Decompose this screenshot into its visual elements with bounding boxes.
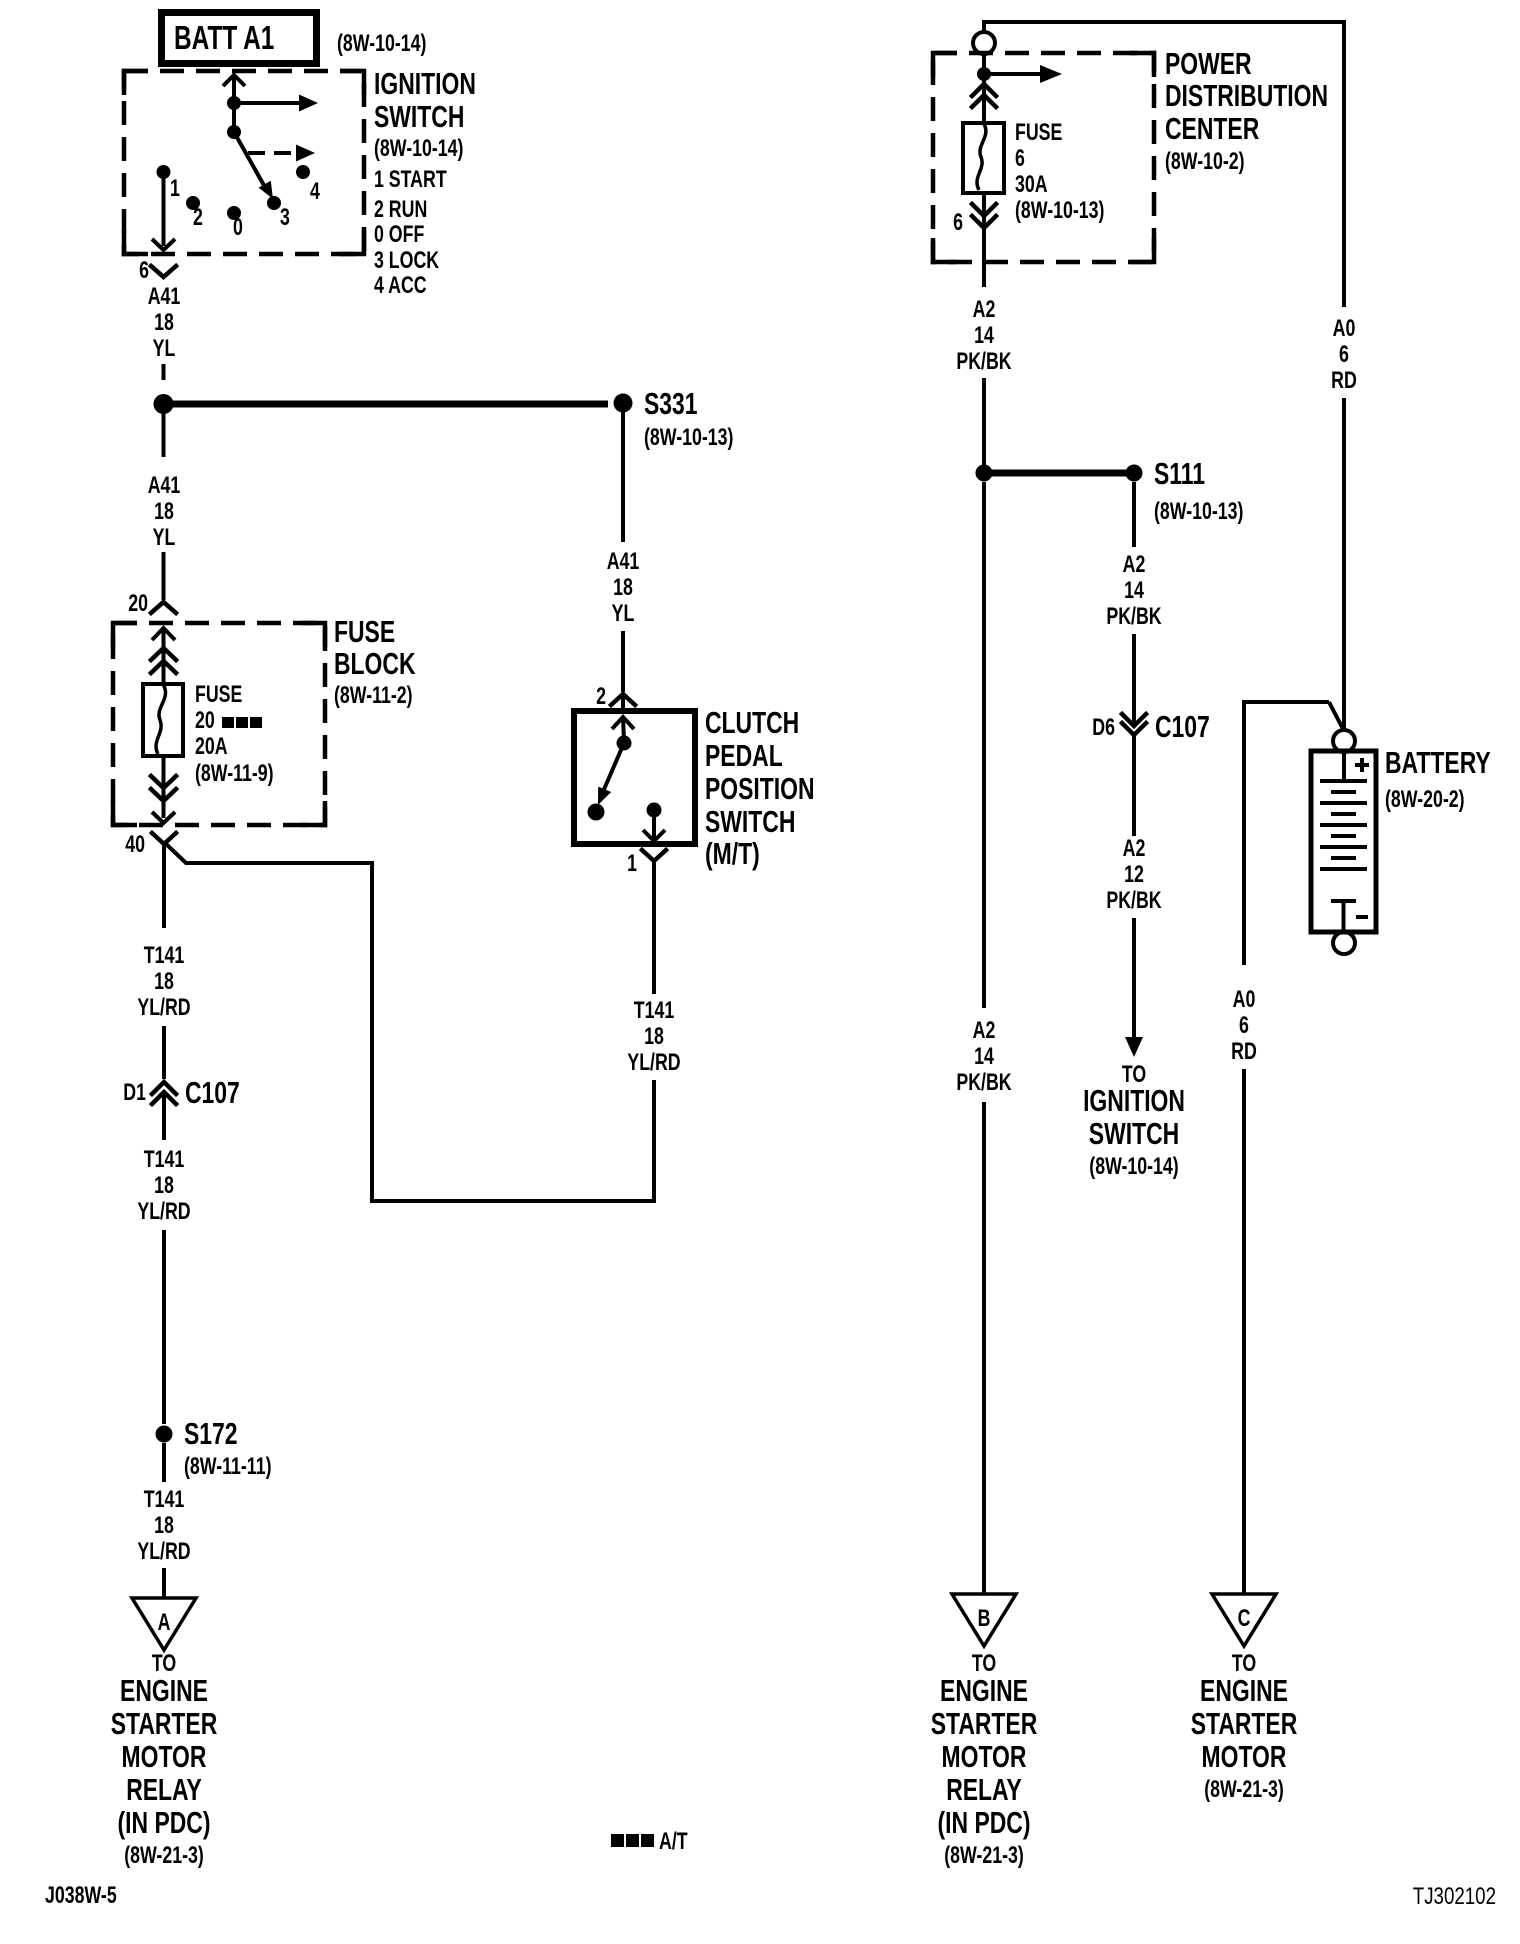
wire label A2 12 PK/BK <box>1106 836 1162 914</box>
label S331 <box>644 386 733 451</box>
svg-text:A2: A2 <box>1123 836 1146 862</box>
wire battery positive to starter branch <box>1244 702 1343 965</box>
ignition switch contact 4 (ACC) <box>296 165 310 179</box>
battery positive plate stem <box>1342 753 1346 781</box>
svg-text:(M/T): (M/T) <box>705 836 760 871</box>
node splice junction J2 <box>976 465 993 482</box>
battery plus sign <box>1355 758 1369 772</box>
svg-text:PK/BK: PK/BK <box>956 1070 1012 1096</box>
pin 20 connector chevron <box>151 602 176 613</box>
svg-text:A0: A0 <box>1233 987 1256 1013</box>
battery negative plate tee <box>1331 901 1356 930</box>
fuse F6 label <box>1015 120 1104 224</box>
svg-text:RD: RD <box>1231 1039 1257 1065</box>
wire to splice junction J2 <box>982 378 986 465</box>
svg-text:T141: T141 <box>634 998 675 1024</box>
fuse block dashed box <box>113 623 325 825</box>
destination label engine starter motor relay (A) <box>111 1651 218 1869</box>
wire label A41 18 YL (upper) <box>148 284 181 362</box>
wire to battery positive <box>1342 398 1346 729</box>
off-page connector triangle C <box>1212 1594 1276 1646</box>
svg-text:IGNITION: IGNITION <box>374 66 476 101</box>
svg-text:0 OFF: 0 OFF <box>374 222 424 248</box>
ignition switch node B2 (wiper pivot dot) <box>227 125 241 139</box>
svg-text:YL/RD: YL/RD <box>137 995 190 1021</box>
svg-text:(8W-10-2): (8W-10-2) <box>1165 149 1245 175</box>
svg-text:(8W-20-2): (8W-20-2) <box>1385 787 1465 813</box>
pin 2 connector chevron <box>611 694 635 705</box>
svg-text:(8W-10-13): (8W-10-13) <box>1015 198 1104 224</box>
svg-text:(8W-10-14): (8W-10-14) <box>374 136 463 162</box>
off-page connector triangle B <box>952 1594 1016 1646</box>
wire S331 to clutch pedal position switch pin 2 <box>621 412 625 542</box>
wire contact 1 to pin 6 with arrow <box>152 172 175 250</box>
svg-text:30A: 30A <box>1015 172 1048 198</box>
svg-text:T141: T141 <box>144 943 185 969</box>
svg-text:A41: A41 <box>607 549 640 575</box>
wire to off-page connector C <box>1242 1069 1246 1593</box>
svg-text:4: 4 <box>310 179 320 205</box>
svg-text:A2: A2 <box>1123 552 1146 578</box>
svg-text:18: 18 <box>154 1173 174 1199</box>
ignition switch run-feed arrow <box>234 95 318 112</box>
fuse box BATT A1 <box>162 13 317 64</box>
wire to connector C107 D6 <box>1132 634 1136 723</box>
svg-text:14: 14 <box>974 323 994 349</box>
wire label A0 6 RD (starter branch) <box>1231 987 1257 1065</box>
svg-text:1: 1 <box>627 851 637 877</box>
wire battery feed top run <box>982 20 1344 307</box>
wire label T141 18 YL/RD (second) <box>137 1147 190 1225</box>
battery label <box>1385 745 1491 813</box>
svg-text:BLOCK: BLOCK <box>334 646 416 681</box>
svg-text:YL/RD: YL/RD <box>627 1050 680 1076</box>
connector C107 pin D1 double chevron <box>152 1082 176 1104</box>
ignition switch contact 1 (START) <box>157 165 171 179</box>
svg-text:S172: S172 <box>184 1416 238 1451</box>
svg-text:A0: A0 <box>1333 316 1356 342</box>
svg-text:(8W-21-3): (8W-21-3) <box>124 1843 204 1869</box>
svg-text:(8W-10-14): (8W-10-14) <box>1089 1154 1178 1180</box>
clutch switch label <box>705 705 815 871</box>
connector C107 pin D6 double chevron <box>1122 714 1146 735</box>
svg-text:SWITCH: SWITCH <box>1089 1116 1179 1151</box>
svg-text:40: 40 <box>125 832 145 858</box>
svg-text:FUSE: FUSE <box>334 614 395 649</box>
legend A/T marker <box>611 1829 688 1855</box>
svg-text:CENTER: CENTER <box>1165 111 1260 146</box>
ignition switch feed arrow to BATT A1 <box>223 75 245 103</box>
svg-text:T141: T141 <box>144 1487 185 1513</box>
svg-text:YL/RD: YL/RD <box>137 1539 190 1565</box>
svg-text:DISTRIBUTION: DISTRIBUTION <box>1165 78 1328 113</box>
svg-text:D1: D1 <box>123 1080 146 1106</box>
clutch switch pin1 exit arrow <box>643 810 665 841</box>
svg-text:2: 2 <box>193 205 203 231</box>
clutch switch entry arrow <box>612 717 634 740</box>
svg-text:MOTOR: MOTOR <box>942 1739 1027 1774</box>
wire below J1 <box>162 413 166 457</box>
wire below J2 <box>982 482 986 1008</box>
wire label A2 14 PK/BK (lower) <box>956 1018 1012 1096</box>
svg-text:YL: YL <box>153 336 176 362</box>
svg-text:SWITCH: SWITCH <box>705 804 795 839</box>
svg-text:STARTER: STARTER <box>111 1706 218 1741</box>
svg-text:ENGINE: ENGINE <box>940 1673 1028 1708</box>
fuse F20 body <box>143 684 183 756</box>
svg-text:C107: C107 <box>185 1075 240 1110</box>
wire label T141 18 YL/RD (clutch branch) <box>627 998 680 1076</box>
svg-text:RELAY: RELAY <box>126 1772 202 1807</box>
ignition switch dashed box <box>124 71 364 254</box>
svg-text:(IN PDC): (IN PDC) <box>938 1805 1031 1840</box>
svg-text:IGNITION: IGNITION <box>1083 1083 1185 1118</box>
fuse block entry arrow <box>152 628 175 684</box>
battery positive terminal circle <box>1333 730 1355 752</box>
ignition switch contact 0 (OFF) <box>227 206 241 220</box>
svg-text:BATTERY: BATTERY <box>1385 745 1491 780</box>
svg-text:6: 6 <box>1239 1013 1249 1039</box>
wire label A41 18 YL (lower) <box>148 473 181 551</box>
wire arrow to ignition switch <box>1125 918 1143 1057</box>
ignition switch label block <box>374 66 476 299</box>
svg-text:CLUTCH: CLUTCH <box>705 705 799 740</box>
svg-text:MOTOR: MOTOR <box>1202 1739 1287 1774</box>
wire label A0 6 RD (top right) <box>1331 316 1357 394</box>
svg-text:18: 18 <box>154 1513 174 1539</box>
svg-text:S111: S111 <box>1154 456 1205 491</box>
svg-text:B: B <box>978 1606 991 1632</box>
ignition switch node B1 (battery feed dot) <box>227 96 241 110</box>
svg-text:6: 6 <box>953 210 963 236</box>
svg-text:(8W-11-11): (8W-11-11) <box>184 1454 271 1480</box>
ignition switch dashed acc-feed arrow <box>248 145 315 162</box>
svg-text:(8W-10-13): (8W-10-13) <box>1154 499 1243 525</box>
node PDC feed dot <box>977 67 991 81</box>
wire below C107 <box>162 1093 166 1140</box>
wire below pin 1 <box>652 862 656 994</box>
svg-text:(8W-21-3): (8W-21-3) <box>1204 1777 1284 1803</box>
clutch switch pin1 contact dot <box>647 803 662 818</box>
label S111 <box>1154 456 1243 525</box>
svg-text:20: 20 <box>128 591 148 617</box>
svg-text:18: 18 <box>613 575 633 601</box>
svg-text:SWITCH: SWITCH <box>374 99 464 134</box>
battery minus sign <box>1356 915 1368 919</box>
svg-text:YL: YL <box>612 601 635 627</box>
pin 40 connector chevron <box>152 833 176 844</box>
node S111 <box>1126 465 1143 482</box>
svg-text:A2: A2 <box>973 297 996 323</box>
svg-text:(8W-10-13): (8W-10-13) <box>644 425 733 451</box>
wire to fuse block pin 20 <box>162 552 166 600</box>
pin 1 connector chevron <box>642 850 666 861</box>
fuse F6 body <box>963 123 1004 193</box>
battery box <box>1311 751 1376 932</box>
wire J1 to S331 <box>167 401 608 408</box>
wire label A2 14 PK/BK (S111 branch) <box>1106 552 1162 630</box>
wire stud to splice dot <box>982 54 986 70</box>
svg-text:D6: D6 <box>1092 715 1115 741</box>
svg-text:TJ302102: TJ302102 <box>1413 1883 1496 1910</box>
svg-text:20A: 20A <box>195 734 228 760</box>
svg-text:2: 2 <box>596 684 606 710</box>
svg-text:C107: C107 <box>1155 709 1210 744</box>
eyelet terminal at PDC B+ stud <box>973 32 995 54</box>
svg-text:0: 0 <box>233 215 243 241</box>
svg-text:ENGINE: ENGINE <box>1200 1673 1288 1708</box>
svg-text:12: 12 <box>1124 862 1144 888</box>
destination label engine starter motor (C) <box>1191 1651 1298 1803</box>
power distribution center label <box>1165 46 1328 175</box>
svg-text:4 ACC: 4 ACC <box>374 273 427 299</box>
destination label to ignition switch <box>1083 1062 1185 1180</box>
svg-text:ENGINE: ENGINE <box>120 1673 208 1708</box>
clutch switch lower-left contact dot <box>588 804 605 821</box>
svg-text:(IN PDC): (IN PDC) <box>118 1805 211 1840</box>
svg-text:FUSE: FUSE <box>195 682 242 708</box>
svg-text:18: 18 <box>154 969 174 995</box>
svg-text:POSITION: POSITION <box>705 771 815 806</box>
wire label T141 18 YL/RD (first) <box>137 943 190 1021</box>
wire to splice S172 <box>162 1230 166 1424</box>
wire clutch switch return loop to pin 40 node <box>165 843 654 1201</box>
svg-text:RELAY: RELAY <box>946 1772 1022 1807</box>
svg-text:S331: S331 <box>644 386 698 421</box>
svg-text:MOTOR: MOTOR <box>122 1739 207 1774</box>
svg-text:18: 18 <box>154 499 174 525</box>
PDC fuse exit double chevron pin 6 <box>972 193 996 256</box>
label S172 <box>184 1416 271 1480</box>
svg-text:6: 6 <box>139 258 149 284</box>
svg-text:PK/BK: PK/BK <box>1106 604 1162 630</box>
svg-text:T141: T141 <box>144 1147 185 1173</box>
node S172 <box>156 1426 173 1443</box>
PDC fuse entry double chevron <box>972 74 996 123</box>
svg-text:C: C <box>1238 1606 1251 1632</box>
battery plates <box>1320 781 1367 869</box>
svg-text:A/T: A/T <box>659 1829 688 1855</box>
wire B1 to B2 <box>232 103 236 132</box>
svg-text:FUSE: FUSE <box>1015 120 1062 146</box>
svg-text:18: 18 <box>154 310 174 336</box>
wire J2 to S111 <box>987 470 1126 477</box>
off-page connector triangle A <box>132 1598 196 1650</box>
svg-text:6: 6 <box>1015 146 1025 172</box>
svg-text:14: 14 <box>974 1044 994 1070</box>
pin 6 connector chevron <box>151 266 176 277</box>
svg-text:(8W-11-2): (8W-11-2) <box>334 683 413 709</box>
fuse block label <box>334 614 416 709</box>
wire to connector C107 D1 <box>162 1026 166 1079</box>
PDC feed arrow to other circuits <box>984 65 1062 83</box>
fuse block exit double chevron <box>151 756 176 818</box>
node S331 <box>614 394 633 413</box>
node splice junction J1 <box>154 394 174 414</box>
destination label engine starter motor relay (B) <box>931 1651 1038 1869</box>
wire S111 branch down <box>1132 482 1136 547</box>
svg-text:A2: A2 <box>973 1018 996 1044</box>
ignition switch contact 2 (RUN) <box>186 196 200 210</box>
svg-text:20: 20 <box>195 708 215 734</box>
wire label A41 18 YL (clutch branch) <box>607 549 640 627</box>
wire below C107 D6 <box>1132 736 1136 836</box>
clutch switch wiper arm arrow <box>598 743 624 805</box>
wire label T141 18 YL/RD (third) <box>137 1487 190 1565</box>
svg-text:RD: RD <box>1331 368 1357 394</box>
svg-text:J038W-5: J038W-5 <box>45 1883 117 1909</box>
svg-text:STARTER: STARTER <box>931 1706 1038 1741</box>
power distribution center dashed box <box>933 53 1154 262</box>
svg-text:A41: A41 <box>148 284 181 310</box>
fuse block exit arrow <box>152 812 175 823</box>
fuse F20 label <box>195 682 274 787</box>
svg-text:1 START: 1 START <box>374 167 447 193</box>
svg-text:2 RUN: 2 RUN <box>374 197 427 223</box>
wire to off-page connector A <box>162 1568 166 1597</box>
svg-text:1: 1 <box>170 176 180 202</box>
fuse block entry double chevron <box>151 648 176 673</box>
svg-text:STARTER: STARTER <box>1191 1706 1298 1741</box>
battery negative terminal circle <box>1333 932 1355 954</box>
svg-text:BATT A1: BATT A1 <box>174 21 274 57</box>
wire label A2 14 PK/BK (upper) <box>956 297 1012 375</box>
svg-text:(8W-21-3): (8W-21-3) <box>944 1843 1024 1869</box>
svg-text:PEDAL: PEDAL <box>705 738 783 773</box>
svg-text:(8W-11-9): (8W-11-9) <box>195 761 274 787</box>
svg-text:YL: YL <box>153 525 176 551</box>
svg-text:A41: A41 <box>148 473 181 499</box>
svg-text:3: 3 <box>280 205 290 231</box>
svg-text:YL/RD: YL/RD <box>137 1199 190 1225</box>
svg-text:PK/BK: PK/BK <box>1106 888 1162 914</box>
clutch pedal position switch box <box>574 711 695 844</box>
svg-text:(8W-10-14): (8W-10-14) <box>337 31 426 57</box>
svg-text:A: A <box>158 1610 171 1636</box>
svg-text:POWER: POWER <box>1165 46 1252 81</box>
wire to off-page connector B <box>982 1102 986 1593</box>
wire T141 below pin 40 <box>162 844 166 928</box>
svg-text:3 LOCK: 3 LOCK <box>374 248 440 274</box>
wire below S172 <box>162 1443 166 1482</box>
svg-text:14: 14 <box>1124 578 1144 604</box>
wire dashed stub above splice <box>162 364 166 380</box>
ignition switch wiper arm arrow to position 3 <box>234 132 273 199</box>
clutch switch upper contact dot <box>617 736 632 751</box>
svg-text:6: 6 <box>1339 342 1349 368</box>
wire to pin 2 <box>621 631 625 692</box>
wire below PDC <box>982 256 986 287</box>
svg-text:18: 18 <box>644 1024 664 1050</box>
ignition switch contact 3 (LOCK) <box>267 196 281 210</box>
svg-text:PK/BK: PK/BK <box>956 349 1012 375</box>
